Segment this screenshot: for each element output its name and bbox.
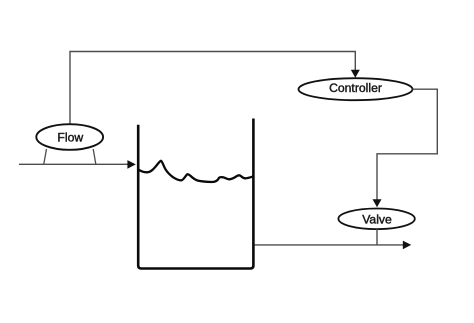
wire: controller to valve (right, down, left, down) <box>377 89 437 199</box>
svg-text:Valve: Valve <box>362 213 392 227</box>
water surface (hand-drawn wave) <box>139 161 254 182</box>
wire: inlet line <box>19 163 128 165</box>
svg-text:Controller: Controller <box>329 81 382 95</box>
wire: flow sensor to controller (up, right, down) <box>70 52 355 125</box>
flow sensor left leg <box>44 149 47 164</box>
flow sensor right leg <box>93 149 96 164</box>
flow sensor ellipse U-FLOW <box>36 124 103 150</box>
arrowhead inlet into tank <box>127 160 135 169</box>
valve ellipse U-VALVE <box>338 209 414 230</box>
controller ellipse U-CTRL <box>299 78 413 100</box>
arrowhead into controller top <box>351 70 360 78</box>
arrowhead outlet <box>403 241 411 250</box>
tank (open-top vessel) <box>138 119 253 269</box>
svg-text:Flow: Flow <box>57 131 83 145</box>
wire: valve stem down to outlet line <box>376 229 378 245</box>
arrowhead into valve top <box>373 199 382 207</box>
wire: outlet line from tank <box>255 244 403 246</box>
